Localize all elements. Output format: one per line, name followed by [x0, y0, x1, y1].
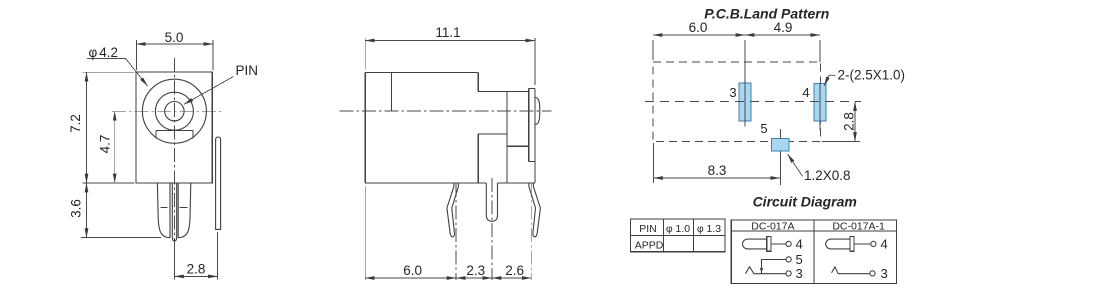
- right prong: [178, 183, 191, 238]
- svg-text:6.0: 6.0: [403, 263, 422, 278]
- left prong: [157, 183, 170, 238]
- dim 11.1: [365, 40, 535, 42]
- svg-text:5: 5: [760, 121, 767, 136]
- front face: [506, 92, 508, 184]
- pattern centerline: [645, 101, 861, 103]
- wire to terminal 4 right: [854, 243, 871, 245]
- inner circle (pin): [165, 102, 184, 121]
- dim 6.0 side: [365, 277, 456, 279]
- dim 2.8 pcb extensions: [822, 141, 860, 143]
- svg-text:4.7: 4.7: [98, 135, 113, 154]
- dim 4.9 pcb: [745, 34, 820, 36]
- terminal 4 circle right: [871, 241, 876, 246]
- pad3 centerline: [744, 40, 746, 127]
- svg-text:4.9: 4.9: [774, 20, 793, 35]
- svg-text:11.1: 11.1: [435, 25, 460, 40]
- vertical centerline: [173, 58, 175, 251]
- svg-text:2.8: 2.8: [187, 262, 206, 277]
- right claw leg: [529, 183, 541, 237]
- switch zigzag right: [832, 267, 870, 274]
- body back edge: [364, 72, 366, 183]
- svg-text:φ4.2: φ4.2: [89, 45, 119, 60]
- claw centerline right: [530, 183, 532, 280]
- svg-text:φ 1.0: φ 1.0: [666, 223, 690, 235]
- wire to terminal 4: [771, 243, 786, 245]
- svg-text:3: 3: [729, 85, 736, 100]
- branch to terminal 5: [762, 260, 787, 274]
- dim 2.6 side: [492, 277, 531, 279]
- terminal 5 circle: [786, 257, 791, 262]
- bottom dim extension left: [364, 187, 366, 281]
- dim 2.8 extensions: [173, 248, 175, 280]
- dim 2.8 pcb: [854, 102, 856, 142]
- svg-text:DC-017A-1: DC-017A-1: [832, 221, 885, 233]
- dim 5.0: [136, 43, 213, 45]
- switch contact zigzag (DC-017A): [745, 267, 786, 274]
- pad 3: [739, 83, 751, 121]
- pad4 centerline: [819, 40, 821, 62]
- svg-text:2.6: 2.6: [505, 263, 524, 278]
- prong tick right: [180, 206, 188, 208]
- side tab: [216, 137, 221, 229]
- lower notch horizontal: [478, 133, 507, 135]
- svg-text:4: 4: [802, 85, 809, 100]
- U1 jack pin symbol (DC-017A): [742, 239, 766, 249]
- svg-text:8.3: 8.3: [708, 163, 727, 178]
- body square: [136, 72, 212, 183]
- svg-text:PIN: PIN: [639, 223, 657, 235]
- dim extension bottom of square: [83, 182, 135, 184]
- svg-text:3: 3: [796, 266, 803, 281]
- dim 3.6: [86, 183, 88, 238]
- leader 2-(2.5X1.0): [824, 75, 835, 86]
- pin table row divider: [631, 234, 726, 236]
- svg-text:2.3: 2.3: [466, 263, 485, 278]
- header underline: [731, 230, 896, 232]
- neck bottom: [507, 145, 529, 147]
- dashed land outline: [653, 62, 820, 142]
- prong tick left: [161, 206, 168, 208]
- branch arrow: [760, 268, 763, 273]
- pin centerline: [491, 178, 493, 280]
- left extension above: [652, 40, 654, 60]
- leader 1.2X0.8: [788, 154, 803, 176]
- side centerline: [340, 110, 552, 112]
- svg-text:P.C.B.Land Pattern: P.C.B.Land Pattern: [704, 5, 829, 21]
- svg-text:φ 1.3: φ 1.3: [697, 223, 721, 235]
- middle circle: [155, 92, 193, 130]
- svg-text:5: 5: [796, 252, 803, 267]
- dim 7.2 extension top: [83, 71, 135, 73]
- top step vertical: [477, 72, 479, 91]
- terminal 4 circle: [786, 241, 791, 246]
- outer circle φ4.2: [142, 79, 206, 143]
- svg-text:1.2X0.8: 1.2X0.8: [804, 168, 851, 183]
- terminal 3 circle right: [870, 271, 875, 276]
- svg-text:Circuit Diagram: Circuit Diagram: [753, 193, 857, 209]
- svg-text:3: 3: [881, 266, 888, 281]
- svg-text:2-(2.5X1.0): 2-(2.5X1.0): [838, 68, 906, 83]
- svg-text:5.0: 5.0: [165, 30, 184, 45]
- notch in outer circle: [155, 130, 157, 138]
- dim 5.0 extension lines: [135, 40, 137, 70]
- pad5 centerline: [779, 129, 781, 139]
- inner vertical line: [390, 72, 392, 111]
- svg-text:PIN: PIN: [236, 63, 259, 78]
- pad 4: [814, 83, 826, 121]
- left claw leg: [447, 183, 459, 237]
- svg-text:4: 4: [796, 236, 803, 251]
- top step horizontal: [478, 91, 529, 93]
- dim 2.8: [174, 275, 217, 277]
- dim 3.6 extension bottom: [81, 237, 161, 239]
- svg-text:2.8: 2.8: [842, 112, 857, 131]
- dim 2.3 side: [456, 277, 492, 279]
- left extension below: [653, 143, 655, 183]
- svg-text:6.0: 6.0: [689, 20, 708, 35]
- horizontal centerline: [112, 110, 222, 112]
- dim 7.2: [86, 72, 88, 183]
- dim 11.1 extensions: [364, 38, 366, 69]
- pad 5: [772, 139, 790, 151]
- lower notch vertical: [477, 134, 479, 183]
- claw centerline left: [455, 183, 457, 280]
- body bottom edge: [365, 182, 486, 184]
- svg-text:DC-017A: DC-017A: [751, 221, 794, 233]
- circuit table outline: [731, 220, 896, 283]
- center pin leg: [486, 183, 497, 221]
- dim 4.7: [114, 111, 116, 183]
- dim 6.0 pcb: [653, 34, 745, 36]
- svg-text:4: 4: [881, 236, 888, 251]
- circuit table divider: [813, 220, 815, 283]
- svg-text:APPD: APPD: [635, 239, 664, 251]
- terminal 3 circle: [786, 271, 791, 276]
- center pin legs: [172, 183, 176, 241]
- dim 8.3: [654, 177, 780, 179]
- body top edge: [365, 71, 478, 73]
- U2 jack pin symbol (DC-017A-1): [826, 239, 850, 249]
- svg-text:7.2: 7.2: [68, 114, 83, 133]
- flange bulge: [535, 97, 540, 124]
- pin table outline: [631, 219, 726, 252]
- svg-text:3.6: 3.6: [69, 199, 84, 218]
- pin table col dividers: [662, 219, 664, 252]
- flange: [528, 88, 530, 161]
